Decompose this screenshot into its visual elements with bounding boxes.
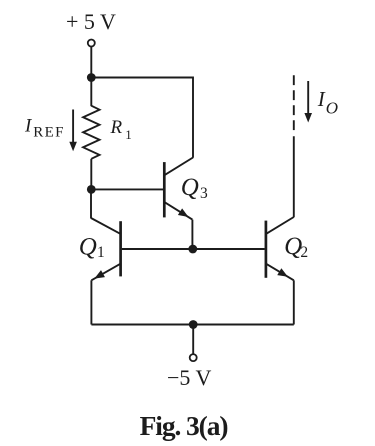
label Q3: [181, 174, 208, 202]
wire: node D to -5V terminal: [192, 325, 194, 355]
current arrow I_REF: [69, 110, 77, 152]
svg-text:3: 3: [200, 185, 208, 202]
svg-text:I: I: [317, 87, 326, 111]
svg-text:Fig. 3(a): Fig. 3(a): [140, 410, 228, 441]
wire: bottom rail: [91, 324, 293, 326]
label I_O: [317, 87, 338, 117]
wire: Q2 collector up (solid lead): [293, 136, 295, 217]
wire: node B down to Q1 collector: [90, 189, 92, 218]
wire: Q2 emitter down to bottom rail: [293, 280, 295, 324]
node A (junction: R1 top / rail to Q3 collector): [87, 73, 96, 82]
wire: +5V terminal down to node A: [90, 47, 92, 78]
svg-text:O: O: [326, 98, 338, 117]
svg-text:REF: REF: [33, 125, 64, 141]
svg-text:Q: Q: [79, 234, 97, 261]
svg-text:Q: Q: [181, 174, 199, 201]
node B (junction: R1 bottom / Q3 base / Q1 collector): [87, 185, 96, 194]
node D (negative supply tap): [189, 320, 198, 329]
svg-text:R: R: [110, 117, 123, 138]
transistor Q3: [164, 158, 193, 220]
label I_REF: [24, 116, 65, 141]
resistor R1: [83, 106, 99, 159]
label Q2: [284, 233, 308, 261]
wire: node A to R1 top: [90, 78, 92, 107]
svg-text:−5 V: −5 V: [167, 365, 212, 390]
+5V terminal: [88, 40, 95, 47]
wire: Q3 emitter down to node C: [191, 220, 193, 249]
svg-text:1: 1: [97, 244, 105, 261]
node C (base rail junction): [188, 245, 197, 254]
label Q1: [79, 234, 105, 261]
wire: node A right and down to Q3 collector: [91, 78, 193, 158]
svg-text:+ 5 V: + 5 V: [66, 9, 116, 34]
wire: base rail from Q1 base to Q2 base: [122, 248, 265, 250]
transistor Q1: [91, 218, 121, 280]
svg-text:1: 1: [125, 127, 132, 142]
wire: R1 bottom to node B: [90, 159, 92, 190]
current arrow I_O: [304, 81, 312, 123]
label R1: [110, 117, 132, 142]
svg-text:2: 2: [300, 244, 308, 261]
-5V terminal: [190, 354, 197, 361]
transistor Q2: [266, 217, 294, 280]
wire: Q1 emitter down to bottom rail: [90, 280, 92, 324]
dashed output lead: [293, 75, 295, 130]
wire: node B to Q3 base: [91, 188, 163, 190]
